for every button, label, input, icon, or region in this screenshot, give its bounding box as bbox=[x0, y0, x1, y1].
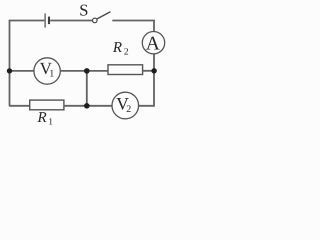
svg-text:A: A bbox=[146, 34, 160, 55]
voltmeter V1: circle bbox=[34, 58, 60, 84]
battery cell: short thick negative plate bbox=[48, 17, 50, 25]
node: bottom junction dot bbox=[84, 103, 90, 109]
node: right junction dot bbox=[151, 68, 156, 73]
voltmeter V2: circle bbox=[112, 92, 139, 119]
svg-text:R: R bbox=[37, 110, 47, 126]
wire: middle row, left junction to voltmeter V1 bbox=[10, 70, 35, 72]
svg-text:1: 1 bbox=[49, 69, 54, 80]
ammeter A: circle bbox=[142, 32, 164, 54]
wire: battery to switch pivot bbox=[50, 20, 92, 22]
svg-text:S: S bbox=[79, 0, 88, 19]
svg-text:R: R bbox=[112, 40, 122, 56]
svg-text:1: 1 bbox=[48, 118, 53, 128]
wire: V1 to middle junction to resistor R2 bbox=[60, 70, 108, 72]
svg-text:2: 2 bbox=[124, 48, 129, 58]
node: middle junction dot bbox=[84, 68, 90, 74]
battery cell: long positive plate bbox=[44, 13, 46, 27]
wire: ammeter down right side to bottom-right corner bbox=[138, 54, 154, 106]
switch S: pivot circle bbox=[93, 18, 98, 23]
node: left junction dot bbox=[7, 68, 12, 73]
wire: top run from top-left corner to battery bbox=[9, 20, 45, 22]
wire: R1 to bottom junction to voltmeter V2 bbox=[64, 105, 112, 107]
wire: switch to top-right corner and down to ammeter bbox=[112, 21, 154, 32]
switch S: open lever arm bbox=[97, 12, 111, 19]
svg-text:2: 2 bbox=[126, 104, 131, 115]
wire: R2 to right junction bbox=[143, 70, 155, 72]
wire: vertical link from middle junction down to bottom junction bbox=[86, 71, 88, 106]
resistor R1: box bbox=[30, 100, 64, 110]
wire: left branch, top-left corner down to bottom-left corner bbox=[9, 20, 11, 106]
resistor R2: box bbox=[108, 65, 143, 75]
wire: bottom-left corner to resistor R1 bbox=[9, 105, 30, 107]
